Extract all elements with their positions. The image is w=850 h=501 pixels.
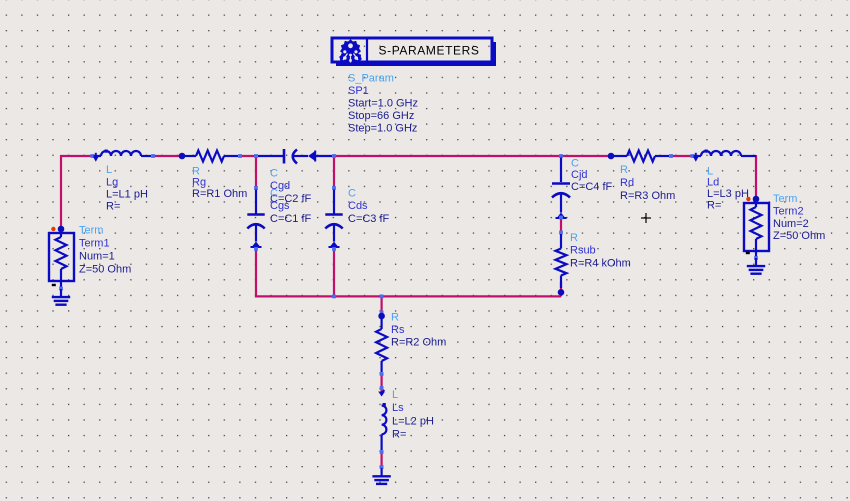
junction square rail-Rs — [380, 295, 384, 299]
inductor Lg — [90, 150, 155, 162]
S-PARAMETERS simulation controller box — [332, 38, 496, 66]
svg-text:R=: R= — [106, 201, 120, 213]
capacitor Cjd — [552, 154, 570, 219]
pin1 marker Term1 — [51, 227, 55, 231]
svg-text:R=: R= — [707, 200, 721, 212]
wire top rail segment E (Rd to Ld) — [670, 155, 696, 157]
svg-text:C=C4 fF: C=C4 fF — [571, 181, 613, 193]
svg-text:Z=50 Ohm: Z=50 Ohm — [79, 263, 131, 275]
capacitor Cgd — [254, 149, 336, 164]
svg-text:Lg: Lg — [106, 176, 118, 188]
svg-text:Rg: Rg — [192, 177, 206, 189]
S_Param SP1 annotation — [348, 73, 418, 135]
label Lg values — [106, 164, 148, 213]
resistor Rd — [608, 151, 673, 162]
terminal Term2 — [744, 196, 769, 260]
svg-text:Num=1: Num=1 — [79, 251, 115, 263]
inductor Ld — [690, 150, 756, 162]
label Cgs values — [270, 187, 312, 225]
ground G3 — [372, 468, 390, 484]
terminal Term1 — [49, 226, 74, 291]
label Rd values — [620, 164, 675, 202]
svg-text:C: C — [571, 157, 579, 169]
svg-text:Num=2: Num=2 — [773, 218, 809, 230]
svg-text:Rs: Rs — [391, 324, 405, 336]
svg-text:R=R3 Ohm: R=R3 Ohm — [620, 190, 675, 202]
svg-text:SP1: SP1 — [348, 85, 369, 97]
svg-text:R=R4 kOhm: R=R4 kOhm — [570, 257, 631, 269]
svg-text:C: C — [348, 187, 356, 199]
label Rg values — [192, 165, 247, 200]
junction square rail-Cds — [332, 295, 336, 299]
svg-text:L=L2 pH: L=L2 pH — [392, 415, 434, 427]
svg-text:R=R2 Ohm: R=R2 Ohm — [391, 336, 446, 348]
wire top rail segment A — [60, 155, 95, 157]
svg-text:Term: Term — [773, 193, 797, 205]
svg-text:R=R1 Ohm: R=R1 Ohm — [192, 188, 247, 200]
svg-text:Term2: Term2 — [773, 206, 804, 218]
minus tick Term2 — [746, 252, 750, 254]
wire Cjd to Rsub — [560, 217, 562, 233]
svg-text:S-PARAMETERS: S-PARAMETERS — [379, 44, 480, 58]
svg-text:L=L1 pH: L=L1 pH — [106, 189, 148, 201]
svg-text:Term: Term — [79, 225, 103, 237]
minus tick Term1 — [52, 284, 56, 286]
svg-text:Cgs: Cgs — [270, 200, 290, 212]
resistor Rg — [179, 151, 242, 162]
svg-text:L: L — [106, 164, 112, 176]
svg-text:R: R — [570, 232, 578, 244]
inductor Ls — [378, 386, 386, 454]
ground G1 — [52, 289, 70, 305]
wire left vertical (Term1 to top rail) — [60, 155, 62, 228]
gear icon — [339, 39, 362, 64]
wire node gate drop (to Cgs) — [255, 156, 257, 188]
wire top rail segment B (Lg to Rg) — [152, 155, 183, 157]
wire Cgs bottom drop — [255, 248, 257, 298]
label Cgd values — [270, 167, 312, 204]
wire rail to Rs — [381, 296, 383, 315]
svg-text:R=: R= — [392, 428, 406, 440]
svg-text:Z=50 Ohm: Z=50 Ohm — [773, 230, 825, 242]
svg-text:Ls: Ls — [392, 402, 404, 414]
label Ld values — [707, 165, 749, 211]
svg-text:Rd: Rd — [620, 177, 634, 189]
svg-text:S_Param: S_Param — [348, 73, 394, 85]
wire node drain drop (to Cds) — [333, 156, 335, 188]
label Cds values — [348, 187, 390, 225]
label Term1 values — [79, 225, 131, 276]
wire Ls to ground — [381, 451, 383, 467]
resistor Rs — [376, 311, 387, 376]
svg-text:Step=1.0 GHz: Step=1.0 GHz — [348, 123, 417, 135]
svg-text:L: L — [392, 389, 398, 401]
svg-text:R: R — [192, 165, 200, 177]
wire right vertical (to Term2) — [755, 155, 757, 199]
svg-text:Rsub: Rsub — [570, 245, 596, 257]
svg-text:C: C — [270, 187, 278, 199]
svg-text:C=C3 fF: C=C3 fF — [348, 213, 390, 225]
ground pin square Ls — [380, 465, 384, 469]
label Rsub values — [570, 232, 631, 269]
label Term2 values — [773, 193, 825, 242]
svg-text:R: R — [391, 311, 399, 323]
wire Rs to Ls — [381, 373, 383, 392]
ground G2 — [747, 258, 765, 274]
wire top rail segment C (Rg to Cgd) — [239, 155, 257, 157]
resistor Rsub — [556, 231, 567, 296]
label Rs values — [391, 311, 446, 348]
svg-text:R: R — [620, 164, 628, 176]
capacitor Cgs — [247, 186, 264, 251]
svg-text:Ld: Ld — [707, 177, 719, 189]
wire Cds bottom drop — [333, 248, 335, 298]
svg-text:C: C — [270, 167, 278, 179]
wire top rail segment D (Cgd to Rd) — [333, 155, 611, 157]
svg-text:Start=1.0 GHz: Start=1.0 GHz — [348, 98, 418, 110]
svg-text:C=C1 fF: C=C1 fF — [270, 213, 312, 225]
label Ls values — [392, 389, 434, 440]
svg-text:Stop=66 GHz: Stop=66 GHz — [348, 110, 414, 122]
label Cjd values — [571, 157, 613, 193]
capacitor Cds — [325, 186, 342, 251]
crosshair mark — [641, 213, 651, 223]
wire bottom rail — [255, 295, 561, 297]
svg-text:Cjd: Cjd — [571, 169, 588, 181]
pin1 marker Term2 — [746, 197, 750, 201]
svg-text:L: L — [707, 165, 713, 177]
svg-text:L=L3 pH: L=L3 pH — [707, 188, 749, 200]
svg-text:Term1: Term1 — [79, 238, 110, 250]
svg-text:Cds: Cds — [348, 200, 368, 212]
wire Rsub to bottom rail — [560, 282, 562, 296]
